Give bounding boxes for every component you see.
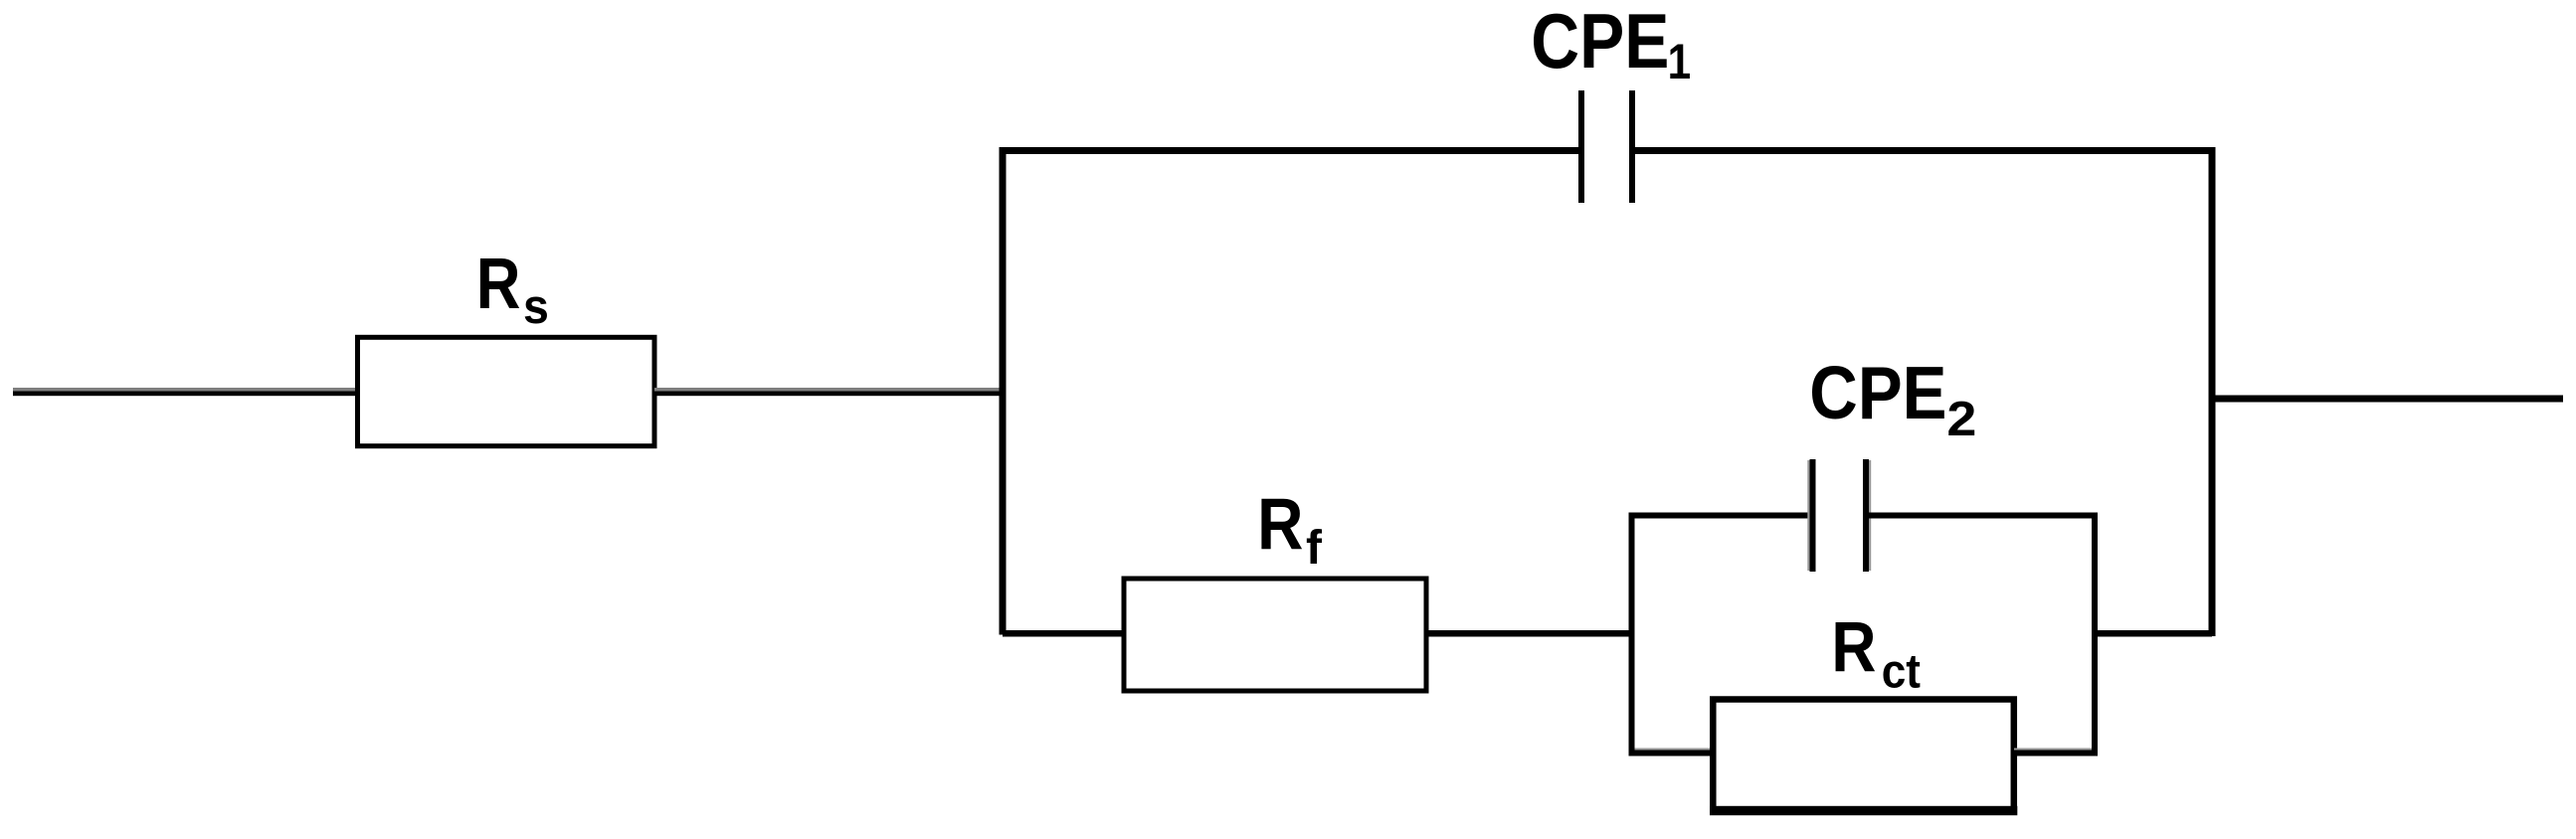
wire output-right [2212, 396, 2563, 403]
wire input-left black [13, 392, 357, 397]
wire Rs-to-node gray [654, 388, 1003, 392]
wire bottom branch left segment [1003, 630, 1124, 637]
capacitor CPE2 left plate [1807, 459, 1815, 572]
wire block-to-right-node [2095, 630, 2212, 637]
svg-text:2: 2 [1946, 391, 1976, 445]
label CPE2 subscript 2 [1946, 391, 1976, 445]
wire block top left segment [1629, 513, 1813, 519]
wire block right vertical [2092, 513, 2098, 756]
node left junction vertical wire [1000, 147, 1007, 635]
capacitor CPE2 right plate [1863, 459, 1871, 572]
svg-text:CPE: CPE [1531, 0, 1669, 84]
svg-text:CPE: CPE [1809, 351, 1946, 435]
capacitor CPE1 right plate [1629, 90, 1635, 203]
wire top branch right segment [1632, 147, 2216, 154]
svg-text:1: 1 [1668, 34, 1691, 89]
resistor Rf [1124, 579, 1426, 691]
wire Rf-to-block [1426, 630, 1632, 637]
label CPE1 subscript 1 [1668, 34, 1691, 89]
wire Rs-to-node black [654, 392, 1003, 397]
svg-text:ct: ct [1882, 644, 1921, 698]
svg-text:R: R [1831, 607, 1876, 687]
svg-text:R: R [1257, 483, 1303, 565]
svg-text:f: f [1306, 522, 1323, 575]
label Rct [1831, 607, 1876, 687]
label Rs [476, 244, 521, 324]
wire block bottom right segment [2014, 749, 2098, 756]
wire block left vertical [1629, 513, 1635, 756]
wire top branch left segment [1000, 147, 1582, 154]
label Rf subscript f [1306, 522, 1323, 575]
svg-text:s: s [523, 280, 549, 334]
resistor Rs [358, 337, 655, 445]
label Rs subscript s [523, 280, 549, 334]
svg-text:R: R [476, 244, 521, 324]
wire input-left gray [13, 388, 357, 392]
node right junction vertical wire [2209, 147, 2216, 636]
wire block bottom left segment [1629, 749, 1714, 756]
capacitor CPE1 left plate [1578, 90, 1584, 203]
label Rf [1257, 483, 1303, 565]
wire block top right segment [1866, 513, 2098, 519]
label Rct subscript ct [1882, 644, 1921, 698]
resistor Rct [1710, 700, 2017, 816]
label CPE1 [1531, 0, 1669, 84]
label CPE2 [1809, 351, 1946, 435]
